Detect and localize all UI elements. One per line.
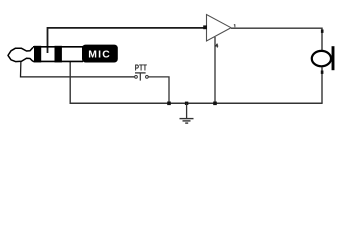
junction ground stem: [185, 102, 188, 105]
PTT switch actuator stem: [139, 73, 141, 81]
earphone pin mark top: [321, 30, 324, 33]
PTT contact left: [135, 76, 138, 79]
MIC body block: [82, 45, 118, 63]
wire ring-contact to op-amp input (net IN): [48, 28, 207, 53]
wire earphone bottom to bus: [321, 67, 323, 103]
wire tip-contact to PTT left contact: [21, 57, 135, 77]
svg-text:MIC: MIC: [88, 50, 111, 61]
PTT contact right: [146, 76, 149, 79]
plug ring band 1: [34, 46, 41, 63]
op-amp U1 triangle: [207, 15, 232, 42]
PTT switch actuator bar: [135, 72, 146, 74]
3.5mm plug tip: [8, 47, 33, 61]
wire op-amp output to earphone top: [231, 28, 322, 50]
pin number 1 (output): [234, 24, 235, 27]
plug ring band 2: [55, 46, 62, 63]
earphone SPK ellipse: [312, 51, 331, 66]
svg-text:PTT: PTT: [135, 63, 148, 73]
pin number 4 (bottom): [216, 44, 219, 48]
wire sleeve-contact down to ground bus: [69, 62, 71, 104]
plug barrel: [33, 47, 83, 62]
op-amp input junction dot: [203, 25, 207, 29]
earphone pin mark bottom: [321, 71, 324, 74]
junction PTT/bus: [167, 102, 171, 106]
wire PTT right contact down to bus: [148, 77, 169, 103]
earphone bar: [332, 46, 335, 70]
wire ground stem: [186, 103, 188, 118]
wire ground bus: [70, 102, 323, 104]
junction pin4/bus: [213, 102, 217, 106]
wire op-amp pin 4 to bus: [214, 37, 216, 104]
ground symbol: [180, 119, 194, 124]
